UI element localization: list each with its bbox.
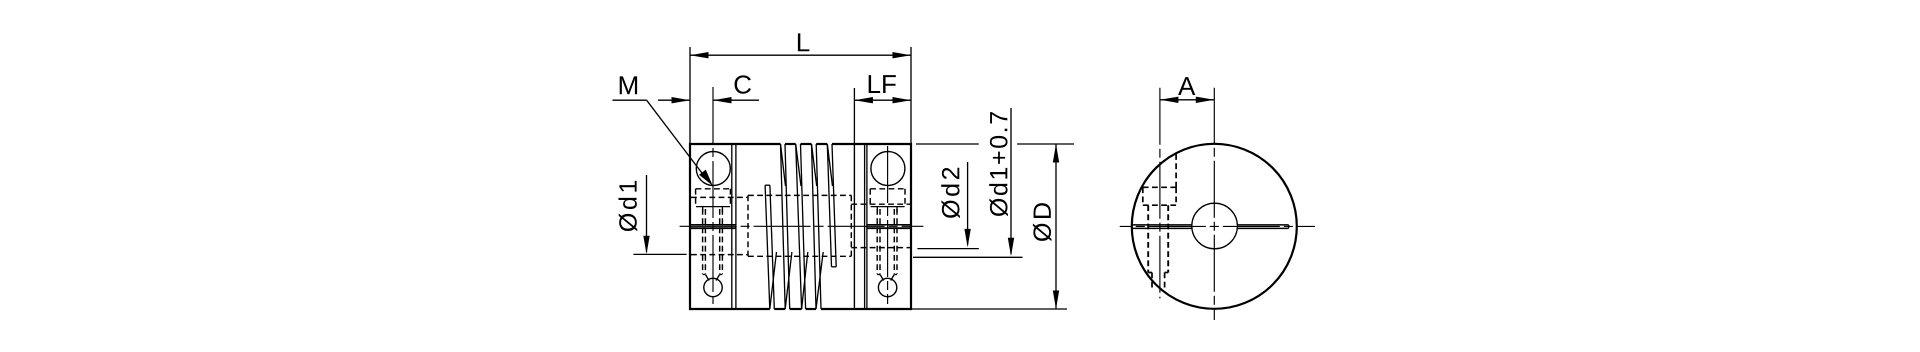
- clamp screw head circle: [696, 152, 730, 186]
- screw counterbore hidden outline: [696, 188, 731, 190]
- side view: left hub clamp slit: [690, 224, 736, 226]
- spring bottom gap crossers: [770, 252, 777, 309]
- side view: left face: [689, 143, 691, 310]
- spring right wire end cap: [832, 266, 837, 268]
- dimension A: [1160, 99, 1214, 101]
- end view: counterbore wall hidden line: [1175, 154, 1177, 187]
- screw exit hole circle: [704, 278, 722, 296]
- clamp screw head circle: [871, 152, 905, 186]
- clamp screw centerline at x=713.0: [712, 87, 714, 304]
- side view: body outline (bottom edge segments): [690, 308, 770, 310]
- hidden bore lines: middle bore (d1+0.7): [748, 194, 851, 196]
- side view: right hub inner edges: [853, 144, 855, 309]
- screw tip chamfer: [703, 274, 706, 276]
- side view: left hub inner edges: [731, 144, 733, 309]
- screw tip chamfer: [877, 274, 880, 276]
- end view: bore circle: [1192, 203, 1238, 249]
- side view: right face: [910, 143, 912, 310]
- hidden bore lines: left hub bore (d1): [691, 196, 748, 198]
- side view: right hub clamp slit: [867, 224, 911, 226]
- screw thread hidden lines: [876, 209, 878, 274]
- end view: vertical centerline: [1213, 88, 1215, 320]
- screw counterbore hidden outline: [870, 188, 905, 190]
- dimension phi-D: [1033, 203, 1052, 241]
- dimension phi-d1+0.7: [989, 112, 1008, 216]
- screw shank: [702, 207, 704, 212]
- side view: center axis line: [680, 225, 924, 227]
- end view: hidden screw thread lines: [1147, 205, 1149, 272]
- dimension LF: [853, 88, 855, 144]
- clamp screw centerline at x=887.6: [887, 146, 889, 304]
- end view: outer circle: [1132, 144, 1297, 309]
- screw thread hidden lines: [702, 209, 704, 274]
- end view: screw centerline: [1159, 88, 1161, 299]
- spring left wire end (capped strip): [765, 185, 770, 309]
- dimension C (outside arrows): [658, 99, 690, 101]
- spring coil strips and crossings: [781, 144, 786, 309]
- screw exit hole circle: [878, 278, 896, 296]
- screw head seat: [696, 206, 730, 208]
- end view: horizontal centerline: [1120, 225, 1315, 227]
- dimension phi-d2: [941, 168, 960, 218]
- screw shank: [876, 207, 878, 212]
- end view: hidden screw head rectangle: [1143, 186, 1176, 188]
- label M with leader to screw head: [620, 76, 637, 94]
- dimension L: [689, 47, 691, 144]
- side view: coupling body outline (top edge segments): [690, 143, 781, 145]
- dimension phi-d1: [618, 181, 637, 231]
- hidden bore lines: right hub bore (d2): [851, 203, 910, 205]
- screw head seat: [871, 206, 905, 208]
- end view: slit lines: [1132, 224, 1192, 226]
